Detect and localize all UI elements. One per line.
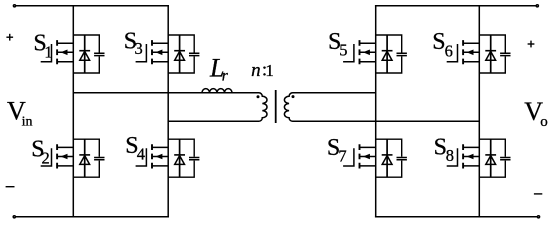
body diode of S7 [382,139,393,177]
transistor S8 [447,144,480,168]
transistor S6 [447,40,480,64]
transistor S4 [136,144,169,168]
wire: top-right output rail [376,5,538,7]
body diode of S8 [485,139,496,177]
body diode of S6 [485,35,496,73]
svg-text:1: 1 [265,61,274,80]
transistor S7 [343,144,376,168]
transistor S5 [343,40,376,64]
wire: top-left input rail [15,5,169,7]
input terminal dot bottom (-) [13,216,15,218]
svg-text:7: 7 [338,147,346,166]
svg-text:8: 8 [446,146,454,165]
svg-text:n: n [251,60,261,81]
body diode of S1 [79,35,90,73]
capacitor of S3 (cell box) [168,35,199,73]
wire: right bridge leg D (S6/S8) [478,6,480,217]
input terminal dot top (+) [13,5,15,7]
output terminal dot bottom (-) [537,216,539,218]
capacitor of S5 (cell box) [376,35,407,73]
capacitor of S2 (cell box) [73,139,104,177]
wire: left bridge leg A (S1/S2) [72,6,74,217]
transformer core [275,90,277,123]
output terminal dot top (+) [536,5,538,7]
svg-text:6: 6 [445,41,453,60]
body diode of S4 [174,139,185,177]
polarity dot secondary [292,95,295,98]
inductor Lr [202,89,232,93]
wire: right bridge leg C (S5/S7) [375,6,377,217]
svg-text:in: in [22,114,33,129]
svg-text:o: o [540,114,548,130]
transistor S3 [136,40,169,64]
wire: left bridge leg B (S3/S4) [167,6,169,217]
wire: secondary net with transformer secondary winding [284,93,479,121]
transistor S2 [41,144,74,168]
polarity dot primary [257,95,260,98]
plus sign right [528,43,535,45]
capacitor of S4 (cell box) [168,139,199,177]
svg-text:r: r [222,68,229,85]
plus sign left [6,36,13,38]
svg-text:3: 3 [135,39,143,58]
body diode of S2 [79,139,90,177]
capacitor of S7 (cell box) [376,139,407,177]
capacitor of S6 (cell box) [479,35,510,73]
svg-text:4: 4 [137,145,145,164]
transistor S1 [41,40,74,64]
capacitor of S1 (cell box) [73,35,104,73]
body diode of S5 [382,35,393,73]
svg-text:2: 2 [42,149,50,168]
minus sign right [534,193,542,195]
capacitor of S8 (cell box) [479,139,510,177]
wire: bottom-left input rail [14,216,168,218]
body diode of S3 [174,35,185,73]
svg-text:5: 5 [339,41,347,60]
wire: primary top net with transformer primary winding [73,93,267,121]
svg-text:1: 1 [44,43,52,62]
minus sign left [6,186,15,188]
wire: bottom-right output rail [376,216,539,218]
